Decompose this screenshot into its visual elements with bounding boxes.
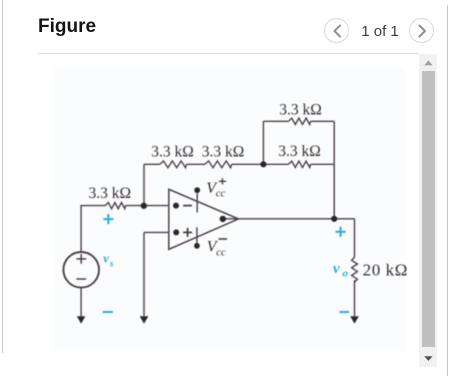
svg-text:3.3 kΩ: 3.3 kΩ [202,143,245,160]
svg-text:20 kΩ: 20 kΩ [363,260,408,279]
svg-text:3.3 kΩ: 3.3 kΩ [151,143,194,160]
svg-text:3.3 kΩ: 3.3 kΩ [278,143,321,160]
svg-text:v: v [103,252,109,266]
svg-text:cc: cc [216,247,226,258]
svg-text:s: s [109,259,114,269]
svg-text:v: v [333,261,340,277]
svg-text:cc: cc [216,189,226,200]
svg-text:3.3 kΩ: 3.3 kΩ [89,185,132,202]
svg-text:o: o [343,267,349,279]
svg-text:3.3 kΩ: 3.3 kΩ [279,102,322,119]
